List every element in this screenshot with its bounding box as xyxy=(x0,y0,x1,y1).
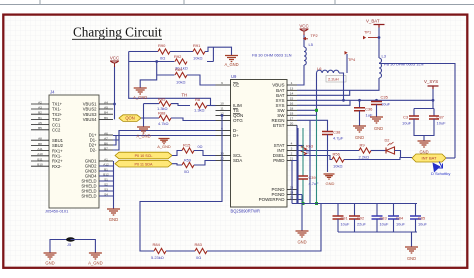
resistor R59 xyxy=(182,162,194,167)
svg-text:0Ω: 0Ω xyxy=(196,255,201,260)
svg-text:4: 4 xyxy=(291,142,293,146)
svg-text:J5: J5 xyxy=(67,242,71,247)
svg-text:C87: C87 xyxy=(437,115,445,120)
wire C36 gnd xyxy=(359,111,361,126)
testpoint TP4 xyxy=(345,51,348,55)
svg-text:P0 10 SCL: P0 10 SCL xyxy=(135,154,153,158)
svg-text:A_GND: A_GND xyxy=(88,261,102,266)
svg-text:GND: GND xyxy=(355,135,364,140)
wire R88 to OTG pin xyxy=(171,118,216,121)
svg-text:R56: R56 xyxy=(333,152,341,157)
wire R8 right xyxy=(207,105,216,107)
U9 right pin names xyxy=(259,81,297,202)
wire R15 to SCL pin xyxy=(194,151,216,156)
resistor R90 xyxy=(158,49,170,54)
wire TH node xyxy=(129,52,216,106)
svg-text:OTG: OTG xyxy=(233,118,243,123)
svg-text:1.3kΩ: 1.3kΩ xyxy=(194,108,205,113)
svg-text:2: 2 xyxy=(291,152,293,156)
svg-text:A3: A3 xyxy=(38,105,42,109)
resistor R83 xyxy=(195,248,207,253)
op-amp U9 BQ25890RTWR xyxy=(231,80,288,208)
svg-text:A2: A2 xyxy=(38,100,42,104)
svg-text:10uF: 10uF xyxy=(437,121,447,126)
teal wire 2 xyxy=(316,115,318,203)
svg-text:17: 17 xyxy=(290,117,294,121)
capacitor C87 xyxy=(429,116,439,119)
ground GND J5 xyxy=(44,253,57,259)
wire R92 row xyxy=(129,47,214,61)
net label P0_11_SDA xyxy=(115,160,172,167)
wire vert regn-drop xyxy=(309,120,311,203)
resistor R85 xyxy=(159,101,171,106)
svg-text:22uF: 22uF xyxy=(357,222,366,227)
svg-text:C91: C91 xyxy=(341,216,348,221)
J4 right pins VBUS/D/GND/SHIELD xyxy=(81,100,113,198)
U9 left pin names xyxy=(216,81,244,163)
wire R91 to A_GND xyxy=(205,47,232,55)
svg-text:C92: C92 xyxy=(357,216,364,221)
svg-text:L3: L3 xyxy=(382,54,387,59)
inductor L6 xyxy=(317,70,340,73)
ground GND J4 xyxy=(107,209,120,215)
wire caps top bus xyxy=(292,203,417,205)
svg-text:A6: A6 xyxy=(104,131,108,135)
svg-text:D Schottky: D Schottky xyxy=(431,171,450,176)
capacitor C38 xyxy=(322,132,333,135)
wire V_BAT to right edge xyxy=(379,64,455,159)
svg-text:A_GND: A_GND xyxy=(136,134,150,139)
wire caps bottom bus xyxy=(338,232,417,247)
ground GND caps xyxy=(405,247,418,253)
resistor R63 xyxy=(302,146,307,155)
svg-text:PMID: PMID xyxy=(273,158,285,163)
resistor R15 xyxy=(182,148,194,153)
svg-text:A8: A8 xyxy=(38,137,42,141)
svg-text:20: 20 xyxy=(290,122,294,126)
svg-text:2.2kΩ: 2.2kΩ xyxy=(359,154,370,159)
svg-text:2.2uH: 2.2uH xyxy=(328,77,339,82)
wire DSEL to R56 xyxy=(297,156,332,160)
capacitor C86 xyxy=(409,116,419,119)
wire VBUS up xyxy=(297,65,304,85)
wire INT row xyxy=(297,150,359,152)
capacitor C85 xyxy=(415,204,417,217)
ground GND C38 xyxy=(323,174,334,179)
svg-text:10uF: 10uF xyxy=(396,222,405,227)
net tie J5 xyxy=(66,237,75,241)
wire QON to R88 xyxy=(141,117,159,119)
wire INT_BAT right xyxy=(446,157,455,159)
ground GND vsys xyxy=(418,141,431,147)
ground GND C35 xyxy=(370,117,383,123)
svg-text:10: 10 xyxy=(220,102,224,106)
svg-text:POWERPAD: POWERPAD xyxy=(259,197,286,202)
wire STAT xyxy=(297,145,304,147)
svg-text:11: 11 xyxy=(220,107,223,111)
resistor R89 xyxy=(175,72,187,77)
svg-text:A9: A9 xyxy=(104,105,108,109)
svg-text:R8: R8 xyxy=(195,97,201,102)
svg-text:TP1: TP1 xyxy=(364,30,371,35)
svg-text:TP2: TP2 xyxy=(311,33,318,38)
svg-text:A11: A11 xyxy=(37,147,43,151)
svg-text:R83: R83 xyxy=(195,242,203,247)
wire BTST down xyxy=(296,125,298,203)
svg-text:R59: R59 xyxy=(184,159,191,163)
ground GND C36 xyxy=(353,126,366,132)
svg-text:16: 16 xyxy=(290,102,294,106)
svg-text:D2: D2 xyxy=(385,138,390,143)
svg-text:GND: GND xyxy=(297,240,306,245)
svg-text:14: 14 xyxy=(290,92,294,96)
svg-text:10kΩ: 10kΩ xyxy=(193,56,202,61)
svg-text:V_BAT: V_BAT xyxy=(366,19,380,24)
svg-text:B4: B4 xyxy=(104,111,108,115)
junction teal a xyxy=(302,202,305,205)
capacitor C92 xyxy=(354,204,356,217)
svg-text:10kΩ: 10kΩ xyxy=(176,80,185,85)
resistor R9 xyxy=(359,148,371,153)
svg-text:A_GND: A_GND xyxy=(133,95,147,100)
svg-text:10uF: 10uF xyxy=(341,222,350,227)
capacitor C91 xyxy=(337,204,339,217)
svg-text:P0 11 SDA: P0 11 SDA xyxy=(135,162,154,166)
wire SDA xyxy=(172,164,182,165)
svg-text:C3: C3 xyxy=(403,115,409,120)
svg-text:5.23kΩ: 5.23kΩ xyxy=(151,255,164,260)
svg-text:0Ω: 0Ω xyxy=(160,56,165,61)
connector J4 xyxy=(49,95,99,208)
ground A_GND top xyxy=(225,56,238,62)
wire REGN xyxy=(297,120,328,131)
wire J4 ground bus xyxy=(99,161,114,209)
svg-text:C83: C83 xyxy=(380,216,387,221)
svg-text:TH: TH xyxy=(182,93,188,98)
wire VCC row xyxy=(129,51,158,53)
svg-text:D+: D+ xyxy=(233,133,239,138)
svg-text:B6: B6 xyxy=(104,141,108,145)
svg-text:B7: B7 xyxy=(104,146,108,150)
wire PMID down xyxy=(292,161,297,204)
wire R85 left xyxy=(144,104,160,127)
svg-text:QON: QON xyxy=(125,116,134,121)
wire BAT row xyxy=(297,78,379,95)
svg-text:A7: A7 xyxy=(104,136,108,140)
capacitor C36 xyxy=(354,108,365,111)
svg-text:A4: A4 xyxy=(104,100,108,104)
inductor L3 xyxy=(379,58,382,78)
svg-text:18: 18 xyxy=(290,107,294,111)
svg-text:9: 9 xyxy=(221,81,223,85)
svg-text:C85: C85 xyxy=(418,216,425,221)
svg-text:R15: R15 xyxy=(183,142,191,147)
svg-text:R89: R89 xyxy=(175,67,183,72)
svg-text:A10: A10 xyxy=(37,152,43,156)
junction SW xyxy=(315,109,318,112)
wire SW tie xyxy=(297,110,317,115)
label L6 value xyxy=(326,76,346,83)
svg-text:J05450-0101: J05450-0101 xyxy=(45,209,69,214)
svg-text:VCC: VCC xyxy=(110,56,119,61)
capacitor C39 xyxy=(298,176,308,179)
wire R9-D2 xyxy=(371,150,386,152)
inductor L5 xyxy=(304,47,306,65)
wire R63 bottom xyxy=(303,154,305,157)
resistor R56 xyxy=(332,157,344,162)
svg-text:SDA: SDA xyxy=(233,158,242,163)
svg-text:GND: GND xyxy=(326,181,335,186)
wire D+ net xyxy=(113,131,216,151)
svg-text:10uF: 10uF xyxy=(402,121,412,126)
resistor R84 xyxy=(154,248,166,253)
svg-text:A5: A5 xyxy=(38,121,42,125)
svg-text:10uF: 10uF xyxy=(381,102,391,107)
svg-text:D2-: D2- xyxy=(90,148,97,153)
svg-text:B10: B10 xyxy=(37,163,43,167)
svg-text:VBUS4: VBUS4 xyxy=(83,117,97,122)
svg-text:L6: L6 xyxy=(317,66,322,71)
wire SW up to L6 xyxy=(297,73,317,110)
svg-text:B8: B8 xyxy=(38,142,42,146)
svg-text:GND: GND xyxy=(407,256,416,261)
wire C35 gnd xyxy=(376,105,378,118)
svg-text:0Ω: 0Ω xyxy=(198,145,203,149)
wire R89 row xyxy=(140,62,174,89)
wire SYS row xyxy=(297,100,433,105)
wire VCC top stem xyxy=(303,34,305,47)
wire J5 left xyxy=(50,240,71,254)
svg-text:FB 30 OHM 0603 1LN: FB 30 OHM 0603 1LN xyxy=(252,53,292,58)
wire R59 to SDA pin xyxy=(194,161,216,166)
svg-text:R85: R85 xyxy=(158,96,166,101)
svg-text:BTST: BTST xyxy=(273,123,285,128)
svg-text:A1: A1 xyxy=(104,157,108,161)
wire C36 stem xyxy=(359,100,361,108)
ground GND pgnd xyxy=(296,231,309,237)
svg-text:RX2-: RX2- xyxy=(52,164,62,169)
svg-text:B11: B11 xyxy=(37,157,43,161)
svg-text:SHIELD: SHIELD xyxy=(81,194,96,199)
wire R56 right xyxy=(344,158,412,160)
net label INT_BAT xyxy=(412,154,446,162)
ground A_GND R89 xyxy=(134,88,147,94)
svg-text:VBUS: VBUS xyxy=(272,83,284,88)
net label QON xyxy=(119,115,141,122)
svg-text:J4: J4 xyxy=(50,90,55,95)
svg-text:TP4: TP4 xyxy=(348,57,356,62)
resistor R88 xyxy=(159,115,171,120)
resistor R91 xyxy=(193,49,205,54)
wire QON loop xyxy=(140,116,222,252)
svg-text:1: 1 xyxy=(291,81,293,85)
wire VSYS caps gnd xyxy=(414,119,434,141)
svg-text:3: 3 xyxy=(291,147,293,151)
ground A_GND scl xyxy=(158,139,169,144)
wire R90-R91 xyxy=(170,51,193,53)
svg-text:BQ25890RTWR: BQ25890RTWR xyxy=(231,209,261,214)
wire VCC stem xyxy=(114,66,116,104)
power VCC xyxy=(110,61,119,67)
J4 left pins TX/CC/SBU/RX xyxy=(31,100,64,168)
svg-text:B1: B1 xyxy=(38,116,42,120)
wire J5 right xyxy=(71,240,96,254)
svg-text:0Ω: 0Ω xyxy=(184,170,189,174)
ground A_GND R85 xyxy=(137,127,150,133)
svg-text:V_SYS: V_SYS xyxy=(424,79,438,84)
resistor R92 xyxy=(175,59,187,64)
wire R83 right xyxy=(207,204,321,252)
svg-text:A_GND: A_GND xyxy=(157,144,171,149)
junction SYS L6 xyxy=(342,99,345,102)
teal wire 1 xyxy=(302,128,304,204)
wire R89 to CE xyxy=(187,75,216,85)
capacitor C35 xyxy=(371,102,382,105)
svg-text:13: 13 xyxy=(290,87,294,91)
wire V_SYS stem xyxy=(432,89,434,109)
wire C38 gnd xyxy=(327,135,329,173)
svg-text:INT BAT: INT BAT xyxy=(422,156,438,161)
wire PGND bus xyxy=(297,190,302,204)
svg-text:U9: U9 xyxy=(231,74,237,79)
svg-text:A_GND: A_GND xyxy=(224,62,238,67)
wire L6 right xyxy=(339,73,344,100)
svg-text:10uF: 10uF xyxy=(418,222,427,227)
svg-text:C36: C36 xyxy=(365,107,373,112)
svg-text:GND: GND xyxy=(45,261,54,266)
svg-text:R92: R92 xyxy=(174,54,182,59)
svg-text:GND: GND xyxy=(374,126,383,131)
junction teal b xyxy=(315,202,318,205)
capacitor C83 xyxy=(376,204,378,217)
wire C35 stem xyxy=(376,100,378,101)
power VCC top xyxy=(300,29,309,35)
svg-text:R91: R91 xyxy=(193,43,201,48)
svg-text:10kΩ: 10kΩ xyxy=(333,163,342,168)
svg-text:C84: C84 xyxy=(396,216,404,221)
wire VBUS bus xyxy=(114,104,116,119)
wire SCL xyxy=(172,151,182,156)
svg-text:B9: B9 xyxy=(104,116,108,120)
svg-text:VCC: VCC xyxy=(299,24,308,29)
wire V_BAT stem xyxy=(378,28,380,59)
svg-text:10uF: 10uF xyxy=(380,222,389,227)
svg-text:1.3kΩ: 1.3kΩ xyxy=(157,106,168,111)
wire R84-R83 xyxy=(166,250,195,252)
ground A_GND J5 xyxy=(89,253,102,259)
svg-text:Charging Circuit: Charging Circuit xyxy=(73,25,162,40)
svg-text:19: 19 xyxy=(290,112,294,116)
svg-text:R84: R84 xyxy=(153,242,161,247)
wire vert btst-drop2 xyxy=(297,128,299,204)
svg-text:C35: C35 xyxy=(381,95,389,100)
wire PGND gnd stem xyxy=(301,204,303,232)
wire D- net xyxy=(113,131,216,141)
capacitor C84 xyxy=(393,204,395,217)
svg-text:C38: C38 xyxy=(333,130,341,135)
svg-text:L5: L5 xyxy=(309,42,314,47)
svg-text:R90: R90 xyxy=(158,43,166,48)
svg-text:4.7kΩ: 4.7kΩ xyxy=(158,121,169,126)
diode D2 xyxy=(386,147,395,154)
svg-text:4.7µF: 4.7µF xyxy=(333,136,344,141)
diode D Schottky xyxy=(433,163,441,173)
svg-text:B5: B5 xyxy=(38,126,42,130)
svg-text:B2: B2 xyxy=(38,111,42,115)
wire VSYS caps bus xyxy=(414,109,434,117)
net label P0_10_SCL xyxy=(115,152,172,159)
wire D2 to INT_BAT xyxy=(395,151,413,158)
svg-text:CC2: CC2 xyxy=(52,128,61,133)
svg-text:R88: R88 xyxy=(158,110,166,115)
wire R85-R8 link xyxy=(171,104,190,106)
svg-text:GND: GND xyxy=(109,217,119,222)
resistor R8 xyxy=(195,103,207,108)
svg-text:CE: CE xyxy=(233,83,239,88)
svg-text:R9: R9 xyxy=(360,143,366,148)
svg-text:15: 15 xyxy=(290,97,294,101)
